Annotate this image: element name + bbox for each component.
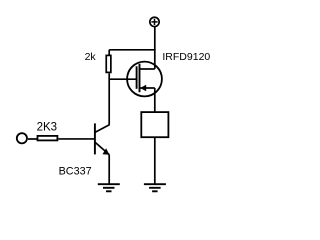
wire load box to ground [154,137,156,184]
wire drain to load box [154,88,156,112]
input terminal [17,133,27,143]
wire emitter to ground [108,155,110,185]
svg-text:BC337: BC337 [59,166,92,178]
transistor Q1 collector diagonal [95,125,109,133]
svg-text:IRFD9120: IRFD9120 [162,51,210,63]
svg-text:2k: 2k [85,51,97,63]
MOSFET U1 drain stub [140,87,155,89]
svg-text:2K3: 2K3 [37,121,57,133]
ground left [98,184,120,191]
wire input to resistor R2 [28,138,38,140]
MOSFET U1 gate bar [136,66,138,89]
MOSFET U1 source stub [140,68,155,70]
resistor R2 2K3 [38,136,58,141]
wire resistor R2 to base [58,138,95,140]
wire rail to resistor R1 top [108,50,110,55]
supply terminal + [150,17,159,26]
transistor Q1 emitter diagonal [95,142,109,154]
resistor R1 2k [106,55,111,72]
transistor Q1 emitter arrow [103,148,110,154]
wire supply to MOSFET source [154,27,156,69]
wire top rail [109,49,155,51]
wire gate [109,78,137,80]
wire resistor R1 bottom to BJT collector [108,73,110,124]
MOSFET U1 arrow [140,85,146,91]
load box [141,112,168,137]
ground right [144,184,166,191]
MOSFET U1 body circle [127,62,162,97]
transistor Q1 base bar [94,123,96,154]
MOSFET U1 channel bar [139,64,141,92]
